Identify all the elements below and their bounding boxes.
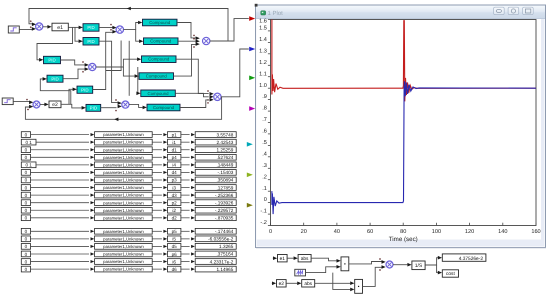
svg-text:0: 0: [25, 200, 28, 205]
output port arrow green: [249, 76, 255, 81]
wire e2 rising to PID5: [69, 88, 77, 105]
sum junction S3: [89, 63, 96, 70]
wire PID5 rising to S2: [93, 29, 117, 90]
svg-text:80: 80: [400, 229, 406, 235]
svg-text:i4: i4: [172, 163, 176, 168]
svg-text:parameter1,Unknown: parameter1,Unknown: [103, 236, 144, 241]
parameter row i3 with constant block, parameter1 block, tag i3, value .127859: [21, 185, 236, 191]
block e1 tag (cost diagram): [278, 255, 288, 262]
plot window frame: [256, 5, 547, 248]
output port arrow blue: [249, 47, 255, 52]
svg-text:4.37526e-2: 4.37526e-2: [459, 256, 484, 262]
svg-text:e2: e2: [279, 281, 285, 287]
sum junction S1: [36, 23, 43, 30]
wire e1 to PID1: [68, 26, 83, 30]
svg-text:p5: p5: [172, 229, 178, 234]
parameter row i4 with constant block, parameter1 block, tag i4, value .148449: [21, 162, 236, 168]
svg-text:0: 0: [264, 197, 267, 203]
output port arrow magenta: [249, 106, 255, 111]
window corner dot: [255, 4, 258, 7]
wire S2 to Compound1 and Compound2: [124, 21, 144, 43]
svg-text:parameter1,Unknown: parameter1,Unknown: [103, 155, 144, 160]
wire P2 to cost sum: [363, 265, 386, 286]
svg-text:0: 0: [25, 170, 28, 175]
svg-text:.3: .3: [262, 163, 267, 169]
svg-text:p2: p2: [172, 200, 178, 205]
svg-text:parameter1,Unknown: parameter1,Unknown: [103, 132, 144, 137]
sum junction S2: [116, 26, 123, 33]
svg-text:-6.03556e-2: -6.03556e-2: [208, 237, 234, 242]
svg-text:parameter1,Unknown: parameter1,Unknown: [103, 215, 144, 220]
wire S1 to e1: [43, 25, 52, 29]
svg-text:0: 0: [25, 178, 28, 183]
svg-text:1 Plot: 1 Plot: [268, 10, 284, 17]
parameter row p4 with constant block, parameter1 block, tag p4, value .527624: [21, 154, 236, 160]
svg-text:.350894: .350894: [216, 178, 233, 183]
sum junction S6: [122, 101, 129, 108]
svg-text:parameter1,Unknown: parameter1,Unknown: [103, 229, 144, 234]
svg-text:1.25259: 1.25259: [216, 147, 233, 152]
wire e1 branch to PID2: [75, 27, 83, 43]
svg-text:160: 160: [531, 229, 540, 235]
svg-text:i6: i6: [172, 259, 176, 264]
display block value 4.37526e-2: [442, 254, 486, 262]
svg-text:.4: .4: [262, 151, 267, 157]
wire S6 to Compound6: [129, 104, 147, 109]
wire sum to integrator: [393, 263, 412, 267]
svg-text:0: 0: [25, 259, 28, 264]
product block P2: [355, 279, 363, 293]
svg-text:40: 40: [334, 229, 340, 235]
wire waveform to P1 lower input: [306, 265, 341, 273]
svg-text:.8: .8: [262, 106, 267, 112]
svg-text:1.0: 1.0: [259, 83, 267, 89]
svg-text:140: 140: [498, 229, 507, 235]
integrator block 1/S: [412, 261, 425, 270]
svg-text:100: 100: [432, 229, 441, 235]
svg-text:-.1: -.1: [260, 209, 267, 215]
svg-text:0: 0: [25, 216, 28, 221]
svg-text:parameter1,Unknown: parameter1,Unknown: [103, 162, 144, 167]
parameter row p5 with constant block, parameter1 block, tag p5, value -.174464: [21, 228, 236, 234]
svg-text:60: 60: [367, 229, 373, 235]
block e1: [52, 23, 68, 31]
svg-text:0: 0: [25, 147, 28, 152]
svg-text:4.23317e-2: 4.23317e-2: [210, 259, 234, 264]
svg-text:p3: p3: [172, 178, 178, 183]
svg-text:1.4: 1.4: [259, 37, 267, 43]
wire abs2 to P2 upper input: [315, 281, 355, 285]
svg-text:-.870935: -.870935: [215, 216, 234, 221]
svg-text:.375164: .375164: [216, 252, 233, 257]
svg-text:parameter1,Unknown: parameter1,Unknown: [103, 140, 144, 145]
wire S3 branch to Compound5: [136, 67, 140, 95]
wire S2b to e2: [40, 103, 49, 107]
svg-text:-.229572: -.229572: [215, 208, 234, 213]
svg-text:p6: p6: [172, 252, 178, 257]
top feedback wire loop1: [29, 7, 228, 41]
parameter row d3 with constant block, parameter1 block, tag d3, value -.252366: [21, 192, 236, 198]
svg-text:0: 0: [269, 229, 272, 235]
block Compound2: [144, 38, 179, 45]
wire Compound4 to S4: [174, 42, 200, 76]
svg-text:.7: .7: [262, 117, 267, 123]
parameter row p6 with constant block, parameter1 block, tag p6, value .375164: [21, 251, 236, 257]
svg-text:0: 0: [25, 252, 28, 257]
source block SRC1 (step input 1): [8, 26, 19, 33]
block e2: [49, 101, 61, 108]
parameter row p2 with constant block, parameter1 block, tag p2, value -.193926: [21, 200, 236, 206]
svg-text:parameter1,Unknown: parameter1,Unknown: [103, 185, 144, 190]
svg-text:i2: i2: [172, 208, 176, 213]
svg-text:.9: .9: [262, 94, 267, 100]
parameter row d2 with constant block, parameter1 block, tag d2, value -.870935: [21, 215, 236, 221]
block PID3: [44, 56, 61, 63]
svg-text:Compound: Compound: [150, 39, 172, 44]
svg-text:PID: PID: [87, 25, 94, 30]
output port arrow red: [249, 16, 255, 21]
svg-text:.127859: .127859: [216, 185, 233, 190]
wire SRC1 to S1: [19, 26, 36, 30]
svg-text:e1: e1: [57, 25, 63, 31]
wire Compound1 to S4: [177, 23, 200, 41]
wire S3 to Compound3 and Compound4: [96, 57, 141, 78]
svg-text:1.3: 1.3: [259, 48, 267, 54]
svg-text:.148449: .148449: [216, 163, 233, 168]
block e2 tag (cost diagram): [277, 280, 287, 287]
parameter row i5 with constant block, parameter1 block, tag i5, value -6.03556e-2: [21, 236, 236, 242]
svg-text:p1: p1: [172, 132, 178, 137]
svg-text:1.1: 1.1: [259, 71, 267, 77]
plot client area: [257, 19, 542, 240]
wire PID2 down to S6: [99, 41, 122, 105]
svg-text:d4: d4: [172, 170, 178, 175]
y axis ticks and labels: [259, 18, 270, 226]
wire e2 rising to PID4: [40, 77, 71, 104]
parameter row i1 with constant block, parameter1 block, tag i1, value 2.42543: [21, 139, 236, 145]
wire PID6 to S6: [101, 105, 122, 112]
wire integrator to display and cost: [425, 256, 442, 275]
svg-text:.1: .1: [262, 186, 267, 192]
svg-text:1.14965: 1.14965: [216, 267, 233, 272]
title bar text 1 Plot: [268, 10, 284, 17]
svg-text:0: 0: [25, 132, 28, 137]
svg-text:0: 0: [25, 244, 28, 249]
wire P1 to cost sum: [349, 258, 386, 264]
block cost tag: [442, 270, 458, 277]
block ramp/clock waveform: [295, 269, 306, 276]
svg-text:p4: p4: [172, 155, 178, 160]
wire Compound3 down to S5: [176, 59, 214, 95]
wire PID3 to S3: [61, 60, 89, 67]
svg-text:3.55748: 3.55748: [216, 132, 233, 137]
svg-text:0 1: 0 1: [25, 140, 32, 145]
svg-text:20: 20: [301, 229, 307, 235]
wire Compound2 to S4: [178, 38, 200, 43]
svg-text:.527624: .527624: [216, 155, 233, 160]
svg-text:0: 0: [25, 193, 28, 198]
window button minimize: [494, 7, 505, 14]
block Compound5: [141, 90, 176, 97]
svg-text:parameter1,Unknown: parameter1,Unknown: [103, 193, 144, 198]
svg-text:e2: e2: [52, 102, 58, 108]
block Compound6: [147, 104, 180, 111]
svg-text:d2: d2: [172, 216, 178, 221]
svg-text:0: 0: [25, 237, 28, 242]
svg-text:i1: i1: [172, 140, 176, 145]
block PID4: [47, 75, 63, 82]
svg-text:d5: d5: [172, 244, 178, 249]
svg-text:parameter1,Unknown: parameter1,Unknown: [103, 178, 144, 183]
svg-text:.2: .2: [262, 174, 267, 180]
svg-text:Compound: Compound: [146, 74, 168, 79]
svg-text:d1: d1: [172, 147, 178, 152]
wire PID4 to S3: [63, 67, 89, 78]
svg-text:1.5: 1.5: [259, 26, 267, 32]
svg-text:parameter1,Unknown: parameter1,Unknown: [103, 200, 144, 205]
svg-text:parameter1,Unknown: parameter1,Unknown: [103, 259, 144, 264]
wire S5 to blue port: [221, 49, 249, 97]
svg-text:abs: abs: [301, 256, 309, 262]
svg-text:parameter1,Unknown: parameter1,Unknown: [103, 267, 144, 272]
parameter row p3 with constant block, parameter1 block, tag p3, value .350894: [21, 177, 236, 183]
svg-text:1/S: 1/S: [415, 263, 423, 269]
svg-text:i3: i3: [172, 185, 176, 190]
wire abs1 to product P1: [311, 258, 341, 262]
svg-text:0: 0: [25, 208, 28, 213]
svg-text:Time (sec): Time (sec): [389, 236, 418, 243]
wire trunk vertical (PID2 distribution): [128, 41, 130, 96]
svg-text:e1: e1: [280, 256, 286, 262]
bottom feedback wire loop2: [25, 97, 221, 121]
title bar icon: [261, 11, 266, 15]
source block SRC2 (step input 2): [2, 98, 13, 105]
red curve y1: [272, 20, 536, 102]
svg-text:0: 0: [25, 267, 28, 272]
x axis ticks and labels: [269, 223, 541, 235]
output port arrow cyan (table): [247, 142, 253, 147]
sum junction S2b: [33, 101, 40, 108]
svg-text:.5: .5: [262, 140, 267, 146]
parameter row i2 with constant block, parameter1 block, tag i2, value -.229572: [21, 207, 236, 213]
svg-text:abs: abs: [304, 281, 312, 287]
window button maximize: [523, 7, 534, 14]
sum junction S4: [203, 37, 210, 44]
wire e1 cross branch to PID3: [37, 27, 73, 61]
svg-text:parameter1,Unknown: parameter1,Unknown: [103, 208, 144, 213]
svg-text:PID: PID: [90, 105, 97, 110]
wire S4 to red port and feedback tee: [210, 19, 249, 41]
block PID6: [86, 104, 101, 111]
svg-text:PID: PID: [87, 39, 94, 44]
wire e2 to PID6: [61, 104, 86, 109]
svg-text:-.193926: -.193926: [215, 200, 234, 205]
svg-text:parameter1,Unknown: parameter1,Unknown: [103, 147, 144, 152]
wire SRC2 to S2b: [13, 99, 33, 104]
svg-text:cost: cost: [446, 271, 455, 277]
svg-text:PID: PID: [51, 76, 58, 81]
svg-text:Compound: Compound: [148, 57, 170, 62]
wire e2 to abs2: [286, 282, 301, 286]
output port arrow olive (table): [247, 203, 253, 208]
blue curve y2: [272, 81, 536, 214]
block PID2: [83, 38, 99, 46]
block Compound4: [139, 73, 174, 80]
plot axes box: [271, 20, 537, 226]
block Compound3: [142, 56, 177, 63]
block abs2: [302, 280, 315, 287]
svg-text:parameter1,Unknown: parameter1,Unknown: [103, 170, 144, 175]
block PID1: [83, 24, 99, 32]
wire PID1 to S2: [99, 24, 117, 30]
svg-text:i5: i5: [172, 237, 176, 242]
window button restore: [508, 7, 519, 14]
input arrow to e1 tag: [273, 256, 277, 260]
svg-text:d6: d6: [172, 267, 178, 272]
wire Compound6 up to S5: [180, 98, 214, 108]
output port arrow yellowgreen (table): [247, 173, 253, 178]
svg-text:1.6: 1.6: [259, 18, 267, 24]
block Compound1: [143, 19, 178, 26]
parameter row i6 with constant block, parameter1 block, tag i6, value 4.23317e-2: [21, 259, 236, 265]
block abs1: [298, 255, 311, 262]
svg-text:0: 0: [25, 155, 28, 160]
sum junction S5: [214, 93, 221, 100]
parameter row d6 with constant block, parameter1 block, tag d6, value 1.14965: [21, 266, 236, 272]
parameter row p1 with constant block, parameter1 block, tag p1, value 3.55748: [21, 132, 236, 138]
svg-text:Compound: Compound: [148, 91, 170, 96]
svg-text:Compound: Compound: [149, 20, 171, 25]
svg-text:-.15403: -.15403: [217, 170, 233, 175]
svg-text:parameter1,Unknown: parameter1,Unknown: [103, 244, 144, 249]
block PID5: [77, 86, 93, 93]
parameter row d5 with constant block, parameter1 block, tag d5, value 1.3265: [21, 244, 236, 250]
svg-text:0: 0: [25, 229, 28, 234]
svg-text:-.174464: -.174464: [215, 229, 234, 234]
wire e1 to abs1: [287, 256, 298, 260]
svg-text:1.3265: 1.3265: [219, 244, 234, 249]
svg-text:PID: PID: [81, 87, 88, 92]
input arrow to e2 tag: [272, 282, 276, 286]
svg-text:.6: .6: [262, 129, 267, 135]
svg-text:Compound: Compound: [153, 105, 175, 110]
svg-text:0 1: 0 1: [25, 163, 32, 168]
parameter row d1 with constant block, parameter1 block, tag d1, value 1.25259: [21, 147, 236, 153]
svg-text:2.42543: 2.42543: [216, 140, 233, 145]
sum junction SB (cost): [386, 261, 393, 268]
wire waveform branch down to P2 lower input: [333, 273, 355, 292]
svg-text:-.252366: -.252366: [215, 193, 234, 198]
parameter row d4 with constant block, parameter1 block, tag d4, value -.15403: [21, 170, 236, 176]
svg-text:1.2: 1.2: [259, 60, 267, 66]
svg-text:parameter1,Unknown: parameter1,Unknown: [103, 252, 144, 257]
svg-text:0: 0: [25, 185, 28, 190]
svg-text:-.2: -.2: [260, 220, 267, 226]
x axis title Time (sec): [389, 236, 418, 243]
svg-text:d3: d3: [172, 193, 178, 198]
wire Compound5 to S5: [175, 93, 213, 101]
product block P1: [341, 257, 349, 271]
wire trunk vertical (sum2 area down): [106, 41, 121, 71]
svg-text:120: 120: [465, 229, 474, 235]
svg-text:PID: PID: [48, 58, 55, 63]
